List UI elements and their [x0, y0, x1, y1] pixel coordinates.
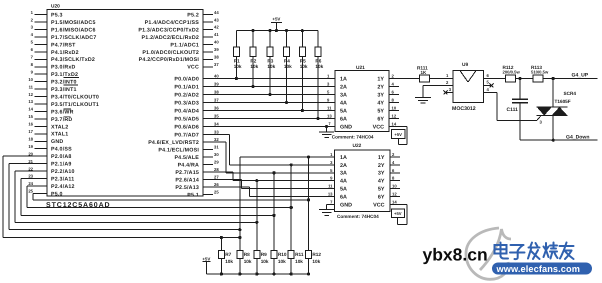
svg-text:P5.0: P5.0 — [51, 191, 63, 197]
svg-text:1: 1 — [330, 152, 333, 157]
svg-text:+5V: +5V — [394, 211, 402, 216]
svg-text:12: 12 — [28, 92, 33, 97]
svg-text:P0.3/AD3: P0.3/AD3 — [174, 100, 199, 106]
resistor R4 10k — [284, 31, 293, 105]
U21 pin labels and output stubs — [340, 74, 399, 131]
svg-text:R5: R5 — [300, 58, 306, 63]
svg-text:P4.2/CCP0/RxD1/MOSI: P4.2/CCP0/RxD1/MOSI — [139, 57, 200, 63]
svg-text:P4.7/RST: P4.7/RST — [51, 42, 76, 48]
svg-text:28: 28 — [214, 167, 219, 172]
svg-text:1: 1 — [327, 74, 330, 79]
svg-text:36: 36 — [214, 106, 219, 111]
svg-text:G4_UP: G4_UP — [572, 73, 589, 79]
resistor R2 10k — [250, 31, 259, 89]
svg-text:P5.2: P5.2 — [187, 13, 199, 19]
node G4_Down — [566, 134, 590, 140]
wire R112 to C111 junction — [516, 77, 534, 80]
svg-text:24: 24 — [28, 181, 33, 186]
svg-text:12: 12 — [392, 192, 397, 197]
capacitor C111 — [507, 79, 529, 141]
svg-text:P4.1/RxD2: P4.1/RxD2 — [51, 50, 79, 56]
svg-text:5: 5 — [327, 90, 330, 95]
svg-text:3: 3 — [449, 87, 452, 92]
svg-text:P1.2/ADC2/ECL/RxD2: P1.2/ADC2/ECL/RxD2 — [142, 35, 199, 41]
wire loop net A9 from U20 left pin — [9, 164, 241, 232]
U9 pin6 wire to R112 — [484, 73, 506, 79]
svg-text:10k: 10k — [267, 64, 275, 69]
svg-text:23: 23 — [28, 174, 33, 179]
svg-text:1Y: 1Y — [377, 76, 384, 82]
svg-text:42: 42 — [214, 25, 219, 30]
svg-text:4: 4 — [392, 160, 395, 165]
svg-text:P5.3: P5.3 — [51, 13, 63, 19]
svg-text:40: 40 — [214, 40, 219, 45]
svg-text:4: 4 — [392, 82, 395, 87]
svg-text:XTAL2: XTAL2 — [51, 124, 68, 130]
svg-text:2: 2 — [392, 152, 395, 157]
svg-text:25: 25 — [214, 190, 219, 195]
svg-text:P4.5/ALE: P4.5/ALE — [174, 155, 199, 161]
svg-text:27: 27 — [214, 175, 219, 180]
resistor R1 10k — [233, 31, 242, 81]
svg-text:U20: U20 — [51, 4, 60, 10]
wire U20 P0.7 row to U22 2A — [213, 135, 334, 165]
svg-text:P1.1/ADC1: P1.1/ADC1 — [170, 42, 199, 48]
svg-text:+5V: +5V — [272, 17, 280, 22]
wire loop net P5.0 from U20 left pin — [33, 193, 310, 201]
svg-text:38: 38 — [214, 90, 219, 95]
svg-text:6A: 6A — [340, 116, 347, 122]
resistor R7 10k — [218, 250, 233, 274]
svg-text:6: 6 — [31, 47, 34, 52]
svg-text:40: 40 — [214, 74, 219, 79]
svg-text:3Y: 3Y — [377, 92, 384, 98]
svg-text:P4.0/SS: P4.0/SS — [51, 147, 72, 153]
svg-text:VCC: VCC — [373, 202, 384, 208]
wire R8 column (shared with 1A riser) — [239, 238, 241, 251]
svg-text:10k: 10k — [261, 259, 269, 264]
svg-text:SCR4: SCR4 — [564, 91, 577, 96]
svg-text:P2.0/A8: P2.0/A8 — [51, 154, 72, 160]
svg-text:14: 14 — [392, 199, 397, 204]
svg-text:C111: C111 — [507, 107, 519, 113]
wire U22 GND pin7 to ground — [327, 204, 335, 209]
resistor R3 10k — [267, 31, 276, 97]
svg-text:11: 11 — [327, 106, 332, 111]
U9 pin3 stub no-connect — [444, 87, 453, 95]
svg-text:P0.6/AD6: P0.6/AD6 — [174, 124, 199, 130]
svg-text:15: 15 — [28, 114, 33, 119]
resistor R6 10k — [315, 31, 324, 121]
svg-text:11: 11 — [29, 84, 34, 89]
svg-text:P2.3/A11: P2.3/A11 — [51, 176, 74, 182]
svg-text:P0.2/AD2: P0.2/AD2 — [174, 92, 199, 98]
svg-text:P0.0/AD0: P0.0/AD0 — [174, 76, 199, 82]
wire loop net A12 from U20 left pin — [27, 186, 293, 209]
wire R7 column — [220, 238, 222, 251]
ground symbol below U22 — [319, 210, 334, 216]
svg-text:10k: 10k — [295, 259, 303, 264]
wire riser to U22 1A — [240, 157, 335, 238]
svg-text:1A: 1A — [340, 76, 347, 82]
svg-text:R2: R2 — [250, 58, 256, 63]
svg-text:P3.3/INT1: P3.3/INT1 — [51, 87, 77, 93]
svg-text:G4_Down: G4_Down — [566, 134, 590, 140]
svg-text:34: 34 — [214, 122, 219, 127]
svg-text:2: 2 — [392, 74, 395, 79]
svg-text:P2.7/A15: P2.7/A15 — [175, 170, 199, 176]
+5V power symbol bottom — [202, 256, 210, 274]
svg-text:3A: 3A — [340, 92, 347, 98]
svg-text:R8: R8 — [244, 252, 250, 257]
svg-text:P1.5/MOSI/ADC5: P1.5/MOSI/ADC5 — [51, 20, 96, 26]
svg-text:2A: 2A — [340, 84, 347, 90]
svg-text:5: 5 — [330, 168, 333, 173]
svg-text:38: 38 — [214, 55, 219, 60]
svg-text:2Y: 2Y — [377, 84, 384, 90]
svg-text:41: 41 — [214, 32, 219, 37]
svg-text:35: 35 — [214, 114, 219, 119]
svg-text:26: 26 — [214, 182, 219, 187]
svg-text:25: 25 — [28, 189, 33, 194]
svg-text:12: 12 — [392, 114, 397, 119]
wire P0.6 row to U21 pin7 GND — [213, 122, 335, 132]
svg-text:P2.2/A10: P2.2/A10 — [51, 169, 75, 175]
svg-text:5Y: 5Y — [378, 187, 385, 193]
svg-text:10k: 10k — [250, 64, 258, 69]
svg-text:VCC: VCC — [187, 65, 199, 71]
svg-text:18: 18 — [28, 136, 33, 141]
svg-text:3Y: 3Y — [378, 171, 385, 177]
svg-text:10k: 10k — [244, 259, 252, 264]
svg-text:20: 20 — [28, 151, 33, 156]
svg-text:2: 2 — [31, 17, 34, 22]
svg-text:www.elecfans.com: www.elecfans.com — [496, 264, 580, 274]
wire R9 column from 4A — [255, 179, 258, 250]
svg-text:7: 7 — [329, 122, 331, 126]
wire U20 P4.6 row to U22 3A — [213, 142, 334, 173]
svg-text:GND: GND — [51, 139, 63, 145]
svg-text:8: 8 — [392, 98, 395, 103]
svg-text:510/0.5w: 510/0.5w — [531, 70, 549, 75]
svg-text:6: 6 — [392, 90, 395, 95]
svg-text:200/0.5w: 200/0.5w — [503, 70, 521, 75]
svg-text:22: 22 — [28, 166, 33, 171]
svg-text:R7: R7 — [225, 252, 231, 257]
svg-text:10k: 10k — [278, 259, 286, 264]
svg-text:R6: R6 — [315, 58, 321, 63]
wire R10 column from 3A — [272, 171, 275, 250]
svg-text:Comment: 74HC04: Comment: 74HC04 — [337, 214, 379, 219]
svg-text:P0.4/AD4: P0.4/AD4 — [174, 108, 199, 114]
U9 pin4 wire to triac gate — [484, 87, 543, 125]
svg-text:P3.7/RD: P3.7/RD — [51, 117, 72, 123]
svg-text:13: 13 — [28, 99, 33, 104]
node G4_UP — [572, 73, 589, 79]
svg-text:P3.6/WR: P3.6/WR — [51, 109, 74, 115]
U9 pin2 wire to ground — [423, 80, 453, 98]
svg-text:5: 5 — [487, 79, 490, 84]
svg-text:XTAL1: XTAL1 — [51, 132, 68, 138]
svg-text:6: 6 — [487, 73, 490, 78]
svg-text:P4.1/ECL/MOSI: P4.1/ECL/MOSI — [158, 147, 199, 153]
svg-text:39: 39 — [214, 47, 219, 52]
svg-text:ybx8.cn: ybx8.cn — [423, 244, 488, 264]
svg-text:P3.4/T0/CLKOUT0: P3.4/T0/CLKOUT0 — [51, 94, 99, 100]
svg-text:P1.0/ADC0/CLKOUT2: P1.0/ADC0/CLKOUT2 — [142, 50, 199, 56]
+5V power symbol at U21 VCC pin14 — [392, 127, 407, 145]
svg-text:R10: R10 — [278, 252, 287, 257]
svg-text:P0.5/AD5: P0.5/AD5 — [174, 116, 199, 122]
svg-text:19: 19 — [28, 144, 33, 149]
svg-text:3A: 3A — [340, 171, 347, 177]
svg-text:R3: R3 — [267, 58, 273, 63]
svg-text:U9: U9 — [462, 62, 468, 68]
svg-text:37: 37 — [214, 62, 219, 67]
svg-text:4: 4 — [487, 87, 490, 92]
svg-text:P2.6/A14: P2.6/A14 — [175, 177, 199, 183]
wire loop net A11 from U20 left pin — [21, 179, 276, 217]
svg-text:1K: 1K — [421, 70, 428, 75]
wire R113 to G4_UP — [543, 77, 598, 80]
svg-text:1: 1 — [31, 10, 34, 15]
wire +5V rail top — [236, 29, 318, 32]
wire U20 P2.5/A13 row to U22 6A — [213, 187, 334, 197]
svg-text:P1.6/MISO/ADC6: P1.6/MISO/ADC6 — [51, 27, 96, 33]
svg-text:9: 9 — [31, 69, 34, 74]
svg-text:4Y: 4Y — [378, 179, 385, 185]
wire G4_Down net — [520, 139, 598, 142]
svg-text:32: 32 — [214, 137, 219, 142]
U22 pin labels and output stubs — [328, 152, 400, 208]
resistor R113 510/0.5w — [531, 65, 549, 82]
svg-text:9: 9 — [330, 176, 333, 181]
wire R111 to U9 pin1 — [430, 73, 453, 79]
svg-text:+5V: +5V — [394, 132, 402, 137]
svg-text:GND: GND — [340, 202, 352, 208]
svg-text:R4: R4 — [284, 58, 290, 63]
svg-text:43: 43 — [214, 17, 219, 22]
svg-text:8: 8 — [31, 62, 34, 67]
svg-text:30: 30 — [214, 152, 219, 157]
svg-text:GND: GND — [340, 124, 352, 130]
svg-text:1A: 1A — [340, 155, 347, 161]
svg-text:P2.5/A13: P2.5/A13 — [175, 185, 199, 191]
svg-text:39: 39 — [214, 82, 219, 87]
svg-text:10k: 10k — [315, 64, 323, 69]
svg-text:3: 3 — [540, 120, 543, 125]
resistor R8 10k — [237, 250, 252, 274]
resistor R5 10k — [299, 31, 308, 113]
op-amp U20 microcontroller STC12C5A60AD body — [46, 4, 203, 209]
svg-text:10k: 10k — [284, 64, 292, 69]
svg-text:14: 14 — [392, 122, 397, 127]
svg-text:13: 13 — [328, 192, 333, 197]
svg-text:6Y: 6Y — [377, 116, 384, 122]
svg-text:P4.3/SCLK/TxD2: P4.3/SCLK/TxD2 — [51, 57, 95, 63]
ground symbol at U9 pin2 — [415, 98, 431, 104]
U9 pin5 stub no-connect — [484, 79, 494, 87]
svg-text:+5V: +5V — [202, 256, 210, 261]
svg-text:P1.3/ADC3/CCP0/TxD2: P1.3/ADC3/CCP0/TxD2 — [138, 27, 199, 33]
svg-text:4: 4 — [31, 32, 34, 37]
wire R11 column from 2A — [290, 163, 293, 250]
op-amp U21 74HC04 hex inverter body — [332, 65, 389, 139]
svg-text:U21: U21 — [356, 65, 365, 71]
svg-text:44: 44 — [214, 10, 219, 15]
svg-text:6Y: 6Y — [378, 194, 385, 200]
op-amp U22 74HC04 hex inverter body — [334, 143, 389, 219]
svg-text:37: 37 — [214, 98, 219, 103]
svg-text:2Y: 2Y — [378, 163, 385, 169]
svg-text:8: 8 — [392, 176, 395, 181]
svg-text:P2.4/A12: P2.4/A12 — [51, 184, 75, 190]
svg-text:4A: 4A — [340, 179, 347, 185]
svg-text:P5.1: P5.1 — [187, 192, 199, 198]
svg-text:16: 16 — [28, 122, 33, 127]
svg-text:11: 11 — [328, 184, 333, 189]
svg-text:P2.1/A9: P2.1/A9 — [51, 162, 72, 168]
svg-text:U22: U22 — [353, 143, 362, 149]
resistor R112 200/0.5w — [503, 65, 521, 82]
+5V power symbol top — [271, 17, 282, 31]
svg-text:R12: R12 — [312, 252, 321, 257]
svg-text:3: 3 — [327, 82, 330, 87]
svg-text:P3.5/T1/CLKOUT1: P3.5/T1/CLKOUT1 — [51, 102, 99, 108]
svg-text:14: 14 — [28, 107, 33, 112]
op-amp U9 MOC3012 optotriac body — [452, 62, 484, 112]
svg-text:5A: 5A — [340, 108, 347, 114]
wire U20 P2.7/A15 row to U22 4A — [213, 172, 334, 181]
svg-text:P4.4/RA: P4.4/RA — [178, 162, 199, 168]
transistor SCR4 T1605F triac — [537, 79, 577, 141]
svg-text:3: 3 — [31, 25, 34, 30]
svg-text:MOC3012: MOC3012 — [452, 106, 476, 112]
svg-text:2A: 2A — [340, 163, 347, 169]
U20 left pins 1-25 with stubs and labels — [28, 10, 99, 198]
svg-text:5A: 5A — [340, 187, 347, 193]
svg-text:17: 17 — [28, 129, 33, 134]
wire bus P0.0-P0.5 from U20 to U21 inputs — [213, 74, 335, 119]
svg-text:13: 13 — [327, 114, 332, 119]
resistor R12 10k — [306, 250, 322, 274]
svg-text:Comment: 74HC04: Comment: 74HC04 — [332, 134, 374, 139]
svg-text:5Y: 5Y — [377, 108, 384, 114]
svg-text:10: 10 — [28, 77, 33, 82]
resistor R9 10k — [254, 250, 269, 274]
svg-text:R11: R11 — [295, 252, 304, 257]
svg-text:T1605F: T1605F — [555, 99, 571, 104]
resistor R111 1K — [417, 66, 430, 83]
svg-text:10k: 10k — [234, 64, 242, 69]
U20 right pins with stubs and labels — [138, 10, 219, 199]
decorative watermark (not labelled further) — [423, 228, 593, 279]
svg-text:10: 10 — [392, 106, 397, 111]
svg-text:21: 21 — [28, 159, 33, 164]
resistor R11 10k — [288, 250, 304, 274]
wire loop net A8 from U20 left pin — [3, 156, 241, 239]
svg-text:10k: 10k — [312, 259, 320, 264]
svg-text:31: 31 — [214, 145, 219, 150]
svg-text:P1.4/ADC4/CCP1/SS: P1.4/ADC4/CCP1/SS — [145, 20, 200, 26]
svg-text:5: 5 — [31, 40, 34, 45]
svg-text:4A: 4A — [340, 100, 347, 106]
svg-text:VCC: VCC — [373, 124, 384, 130]
svg-text:4Y: 4Y — [377, 100, 384, 106]
wire U20 P2.6/A14 row to U22 5A — [213, 180, 334, 189]
svg-text:2: 2 — [446, 80, 449, 85]
+5V power symbol at U22 VCC pin14 — [391, 204, 407, 224]
svg-text:33: 33 — [214, 130, 219, 135]
svg-text:1Y: 1Y — [378, 155, 385, 161]
node junction R7 column on A8 loop — [220, 236, 223, 239]
svg-text:10k: 10k — [225, 259, 233, 264]
svg-text:6A: 6A — [340, 194, 347, 200]
svg-text:7: 7 — [31, 55, 34, 60]
svg-text:P4.6/EX_LVD/RST2: P4.6/EX_LVD/RST2 — [148, 140, 199, 146]
svg-text:P0.1/AD1: P0.1/AD1 — [174, 84, 199, 90]
svg-text:10k: 10k — [300, 64, 308, 69]
wire +5V rail bottom — [207, 272, 311, 275]
svg-text:7: 7 — [330, 199, 333, 204]
svg-text:6: 6 — [392, 168, 395, 173]
ground symbol below U21 — [319, 132, 334, 138]
svg-text:10: 10 — [392, 184, 397, 189]
svg-text:9: 9 — [327, 98, 330, 103]
svg-text:29: 29 — [214, 160, 219, 165]
wire U21 1Y output to R111 — [399, 78, 420, 80]
svg-text:P1.7/SCLK/ADC7: P1.7/SCLK/ADC7 — [51, 35, 96, 41]
svg-text:3: 3 — [330, 160, 333, 165]
svg-text:R1: R1 — [234, 58, 240, 63]
resistor R10 10k — [271, 250, 287, 274]
svg-text:P0.7/AD7: P0.7/AD7 — [174, 132, 199, 138]
svg-text:R9: R9 — [261, 252, 267, 257]
svg-text:P3.0/RxD: P3.0/RxD — [51, 65, 76, 71]
wire loop net A10 from U20 left pin — [15, 171, 258, 224]
wire R12 column from 1A — [307, 155, 310, 250]
svg-text:1: 1 — [446, 73, 449, 78]
